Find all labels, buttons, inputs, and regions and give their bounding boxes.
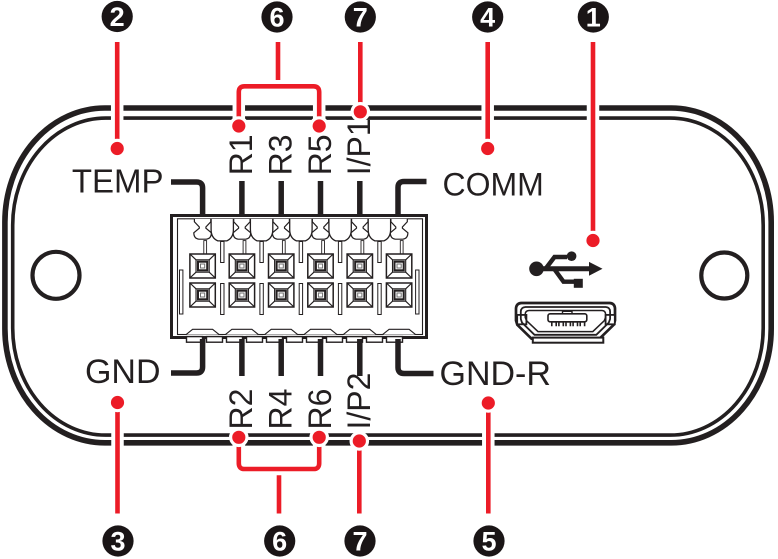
label COMM	[443, 167, 544, 203]
svg-text:4: 4	[480, 3, 495, 33]
svg-text:3: 3	[110, 527, 125, 557]
svg-text:I/P2: I/P2	[341, 373, 377, 430]
label I/P2	[341, 373, 377, 430]
terminal block TB1 outline	[172, 216, 427, 338]
terminal 7 (column 4 top screw)	[308, 254, 333, 278]
label R2	[223, 389, 259, 430]
callout number 6	[264, 525, 295, 556]
callout number 6	[261, 1, 292, 32]
svg-text:R2: R2	[223, 389, 259, 430]
terminal 8 (column 4 bottom screw)	[308, 283, 333, 307]
svg-text:5: 5	[481, 527, 496, 557]
label TEMP	[72, 162, 164, 199]
callout number 4	[472, 1, 503, 32]
wire R5 label to terminal column 4 top	[318, 181, 324, 215]
terminal block bottom reliefs	[186, 329, 416, 334]
wire R1 label to terminal column 2 top	[239, 181, 245, 215]
wire GND label to terminal column 1 bottom	[171, 339, 203, 373]
wire R3 label to terminal column 3 top	[278, 181, 284, 215]
svg-text:2: 2	[110, 2, 125, 32]
callout number 1	[578, 1, 609, 32]
terminal 10 (column 5 bottom screw)	[347, 283, 372, 307]
terminal 2 (column 1 bottom screw)	[190, 283, 215, 307]
callout number 7	[345, 1, 376, 32]
svg-text:I/P1: I/P1	[341, 118, 377, 175]
wire COMM label to terminal column 6 top	[398, 182, 427, 216]
USB trident symbol	[529, 251, 602, 287]
terminal 3 (column 2 top screw)	[229, 254, 254, 278]
svg-text:R4: R4	[263, 389, 299, 430]
terminal 5 (column 3 top screw)	[269, 254, 294, 278]
callout number 3	[102, 525, 133, 556]
wire R4 label to terminal column 3 bottom	[278, 339, 284, 376]
wire I/P2 label to terminal column 5 bottom	[357, 339, 363, 376]
label R1	[223, 134, 259, 175]
wire R2 label to terminal column 2 bottom	[239, 339, 245, 376]
wire GND-R label to terminal column 6 bottom	[398, 339, 434, 374]
mounting hole right	[701, 253, 747, 299]
label R4	[263, 389, 299, 430]
label R6	[302, 389, 338, 430]
micro-USB port	[516, 303, 615, 343]
callout number 5	[473, 525, 504, 556]
callout number 2	[102, 1, 133, 32]
wire I/P1 label to terminal column 5 top	[357, 181, 363, 215]
terminal block wire-entry funnels	[194, 219, 408, 241]
device body outer outline	[5, 108, 771, 443]
label R5	[302, 134, 338, 175]
terminal block solder feet	[187, 337, 403, 343]
svg-text:R1: R1	[223, 134, 259, 175]
svg-text:GND-R: GND-R	[440, 355, 551, 393]
label GND-R	[440, 355, 551, 393]
callout leader 4 (COMM)	[478, 42, 498, 158]
callout leader 3 (GND)	[108, 393, 128, 514]
wire R6 label to terminal column 4 bottom	[318, 339, 324, 376]
svg-text:COMM: COMM	[443, 167, 544, 203]
svg-text:7: 7	[352, 527, 367, 557]
terminal 9 (column 5 top screw)	[347, 254, 372, 278]
terminal 1 (column 1 top screw)	[190, 254, 215, 278]
label I/P1	[341, 118, 377, 175]
svg-text:GND: GND	[85, 353, 161, 391]
callout leader 5 (GND-R)	[479, 393, 499, 513]
callout leader 2 (TEMP)	[107, 42, 127, 158]
label R3	[263, 134, 299, 175]
terminal block separator slots	[180, 241, 420, 315]
svg-text:R3: R3	[263, 134, 299, 175]
wire TEMP label to terminal column 1 top	[171, 182, 203, 215]
svg-text:6: 6	[272, 527, 287, 557]
callout leader 7 bottom (I/P2)	[350, 431, 370, 513]
callout leader 7 top (I/P1)	[351, 42, 371, 122]
terminal 12 (column 6 bottom screw)	[386, 283, 411, 307]
callout number 7	[344, 525, 375, 556]
mounting hole left	[33, 252, 80, 299]
callout leader 6 top (R1 R5 bracket)	[229, 42, 329, 136]
terminal 11 (column 6 top screw)	[386, 254, 411, 278]
callout leader 6 bottom (R2 R6 bracket)	[229, 428, 329, 514]
label GND	[85, 353, 161, 391]
svg-text:1: 1	[586, 3, 601, 33]
svg-text:6: 6	[269, 3, 284, 33]
callout leader 1 (USB)	[583, 42, 603, 250]
svg-text:TEMP: TEMP	[72, 162, 164, 199]
terminal 4 (column 2 bottom screw)	[229, 283, 254, 307]
svg-text:7: 7	[353, 3, 368, 33]
terminal 6 (column 3 bottom screw)	[269, 283, 294, 307]
svg-text:R6: R6	[302, 389, 338, 430]
device body inner outline	[13, 118, 764, 435]
svg-text:R5: R5	[302, 134, 338, 175]
